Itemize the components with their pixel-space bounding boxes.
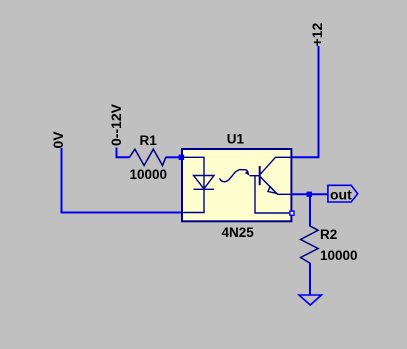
- wire U1 collector to +12: [292, 46, 319, 157]
- junction node at U1 pin 1: [179, 155, 184, 160]
- svg-text:0--12V: 0--12V: [108, 103, 124, 146]
- base stub and base pin wire: [250, 175, 260, 177]
- svg-text:0V: 0V: [50, 131, 66, 149]
- wire from 0--12V label down to R1 left: [117, 148, 130, 158]
- phototransistor inside U1: [250, 157, 292, 213]
- junction node at out: [307, 192, 312, 197]
- open pin square (base pin): [290, 211, 294, 215]
- wire R1 right to U1 pin 1: [166, 156, 182, 158]
- op-amp U1 body (4N25 optocoupler box): [182, 149, 291, 221]
- svg-text:R2: R2: [320, 227, 337, 242]
- wire U1 emitter to out port: [292, 193, 329, 195]
- base bar: [259, 166, 261, 185]
- port flag out: [328, 185, 358, 202]
- emitter diagonal with arrow: [260, 176, 292, 194]
- svg-text:R1: R1: [140, 133, 158, 148]
- wire 0V vertical+horizontal to opto pin 2: [62, 148, 182, 213]
- ground: [299, 295, 322, 305]
- resistor R1: [129, 149, 165, 165]
- svg-text:U1: U1: [227, 131, 245, 146]
- light coupling squiggle arrow: [220, 170, 249, 182]
- LED diode inside U1: [194, 176, 215, 190]
- svg-text:10000: 10000: [320, 248, 358, 263]
- collector diagonal: [260, 157, 292, 175]
- svg-text:+12: +12: [309, 22, 325, 46]
- svg-text:4N25: 4N25: [222, 225, 255, 240]
- wire out junction down to R2: [309, 194, 311, 226]
- svg-text:out: out: [330, 187, 352, 203]
- U1 internal anode pin wire: [182, 157, 205, 212]
- svg-text:10000: 10000: [130, 167, 168, 182]
- resistor R2: [301, 226, 319, 263]
- wire R2 bottom to ground: [309, 263, 311, 295]
